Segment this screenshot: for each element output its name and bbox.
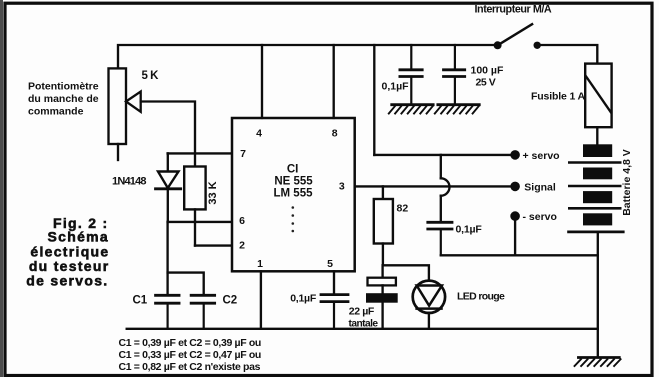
svg-text:LM 555: LM 555 xyxy=(274,188,314,200)
node Signal xyxy=(510,182,520,192)
svg-text:5 K: 5 K xyxy=(142,70,160,82)
label CI NE555 LM555 xyxy=(274,164,314,200)
svg-text:Interrupteur M/A: Interrupteur M/A xyxy=(475,4,552,16)
svg-text:NE 555: NE 555 xyxy=(274,176,313,188)
svg-text:25 V: 25 V xyxy=(476,77,496,89)
wire + servo line xyxy=(374,154,511,156)
ground under C7 xyxy=(435,105,479,114)
capacitor C1 xyxy=(156,295,179,329)
wire jog to C2 xyxy=(168,273,204,294)
svg-text:Potentiomètre: Potentiomètre xyxy=(28,81,99,93)
svg-text:0,1µF: 0,1µF xyxy=(290,293,317,305)
potentiometer P1 body xyxy=(109,68,127,144)
svg-text:Signal: Signal xyxy=(524,181,556,193)
wire pin6 to pin2 link xyxy=(194,222,196,246)
svg-text:+ servo: + servo xyxy=(523,150,560,162)
capacitor C5 22uF tantale xyxy=(366,265,398,329)
wire V+ drop to +servo line xyxy=(373,45,375,155)
label Fig. 2 block xyxy=(26,215,109,289)
wire switch to fuse xyxy=(537,45,597,64)
wire battery to ground xyxy=(597,233,599,356)
resistor R1 33K xyxy=(184,167,205,222)
svg-text:0,1µF: 0,1µF xyxy=(382,80,410,92)
wire signal line pin 3 xyxy=(355,185,512,187)
ground bottom right xyxy=(575,358,621,367)
svg-text:1N4148: 1N4148 xyxy=(112,176,146,188)
svg-text:Batterie 4,8 V: Batterie 4,8 V xyxy=(621,149,633,216)
svg-text:C1: C1 xyxy=(133,295,148,307)
svg-text:tantale: tantale xyxy=(349,319,379,330)
wire junction to LED xyxy=(383,265,429,281)
svg-text:2: 2 xyxy=(239,240,245,252)
svg-text:Schéma: Schéma xyxy=(48,229,110,245)
svg-text:33 K: 33 K xyxy=(207,181,219,204)
fuse F1 1A xyxy=(585,64,611,145)
svg-text:C2: C2 xyxy=(223,295,238,307)
svg-text:6: 6 xyxy=(239,215,245,227)
wire - servo drop xyxy=(514,219,516,255)
svg-text:3: 3 xyxy=(339,181,345,193)
svg-text:0,1µF: 0,1µF xyxy=(456,224,483,236)
svg-text:Fusible 1 A: Fusible 1 A xyxy=(531,91,586,103)
svg-text:7: 7 xyxy=(240,148,246,160)
resistor R2 82 xyxy=(374,186,393,265)
capacitor C2 xyxy=(191,295,214,329)
svg-text:4: 4 xyxy=(256,128,262,140)
svg-text:commande: commande xyxy=(28,106,84,118)
wire pin 6 net xyxy=(168,221,232,223)
wire pin 4 stub xyxy=(261,45,263,118)
wire pin 1 stub xyxy=(260,271,262,329)
wire pot bottom stub xyxy=(117,144,119,160)
svg-text:de servos.: de servos. xyxy=(26,273,108,289)
svg-text:CI: CI xyxy=(287,164,299,176)
wire bottom ground rail xyxy=(127,328,598,330)
battery BT1 4,8V xyxy=(569,144,624,232)
potentiometer wiper arrow xyxy=(126,92,141,112)
node - servo xyxy=(510,211,520,221)
capacitor C6 0,1uF (top) xyxy=(400,45,422,103)
svg-text:5: 5 xyxy=(327,258,333,270)
wire pin 8 stub xyxy=(333,45,335,118)
wire pin 5 stub xyxy=(333,271,335,293)
switch S1 Interrupteur M/A xyxy=(494,24,541,49)
svg-text:LED rouge: LED rouge xyxy=(457,291,505,303)
LED D2 red xyxy=(413,281,445,329)
svg-text:1: 1 xyxy=(257,258,263,270)
svg-text:22 µF: 22 µF xyxy=(349,306,375,318)
wire wiper to 33K node xyxy=(141,102,195,167)
node + servo xyxy=(510,150,520,160)
IC ellipsis dots xyxy=(292,206,295,232)
wire top supply rail (pot to switch) xyxy=(118,45,498,69)
label C1 C2 equations xyxy=(119,337,261,373)
wire - servo rail xyxy=(441,254,598,256)
capacitor C7 100uF 25V (top) xyxy=(444,45,465,103)
IC U1 NE555 box xyxy=(232,118,355,271)
svg-text:82: 82 xyxy=(397,203,409,215)
svg-text:8: 8 xyxy=(332,128,338,140)
svg-text:C1 = 0,82 µF et C2 n'existe pa: C1 = 0,82 µF et C2 n'existe pas xyxy=(119,361,261,373)
diode D1 1N4148 xyxy=(156,153,181,222)
svg-text:100 µF: 100 µF xyxy=(471,65,504,77)
ground under C6 xyxy=(389,105,433,114)
wire pin 2 net xyxy=(195,244,232,246)
wire pin 7 net xyxy=(168,152,232,154)
wire left branch down to C1 xyxy=(166,222,168,294)
capacitor C4 0,1uF (signal) xyxy=(428,222,452,255)
svg-text:C1 = 0,33 µF et C2 = 0,47 µF o: C1 = 0,33 µF et C2 = 0,47 µF ou xyxy=(119,349,261,361)
svg-text:C1 = 0,39 µF et C2 = 0,39 µF o: C1 = 0,39 µF et C2 = 0,39 µF ou xyxy=(119,337,261,349)
wire jump over signal line xyxy=(441,155,450,221)
svg-text:du manche de: du manche de xyxy=(28,93,99,105)
svg-text:- servo: - servo xyxy=(523,211,557,223)
capacitor C3 0,1uF (pin 5) xyxy=(321,295,348,329)
